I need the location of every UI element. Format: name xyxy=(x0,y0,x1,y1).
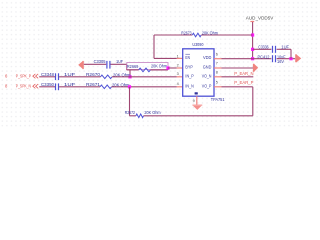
wire R2669 to IN_P vertical xyxy=(129,70,131,77)
wire feedback right vertical xyxy=(252,87,254,116)
svg-text:8: 8 xyxy=(216,71,218,75)
svg-text:PC412: PC412 xyxy=(258,54,270,59)
svg-text:2: 2 xyxy=(177,63,179,67)
svg-text:EN: EN xyxy=(185,55,190,60)
off-page connector left (BYP) xyxy=(78,61,84,69)
resistor R2673 xyxy=(181,31,218,37)
pin 5 stub xyxy=(214,86,222,88)
svg-text:C3336: C3336 xyxy=(258,45,269,50)
svg-text:R2671: R2671 xyxy=(86,82,101,87)
svg-text:R2670: R2670 xyxy=(86,72,101,77)
svg-text:7: 7 xyxy=(216,62,218,66)
port P_SPK_P xyxy=(5,74,38,79)
svg-text:5: 5 xyxy=(216,81,218,85)
svg-text:IN_P: IN_P xyxy=(185,73,194,78)
wire EN pull-up right segment xyxy=(201,34,252,36)
wire VDD row to PC412 xyxy=(253,58,272,60)
svg-text:R2672: R2672 xyxy=(125,110,136,115)
junction AUD_VDD5V / C3336 row xyxy=(251,48,254,51)
pin 1 stub xyxy=(177,57,183,59)
wire PC412 to junction xyxy=(277,58,296,60)
off-page connector right (AUD_VDD5V) xyxy=(295,54,301,62)
svg-text:TPA751: TPA751 xyxy=(211,97,225,102)
svg-text:9: 9 xyxy=(193,99,195,103)
power symbol bar AUD_VDD5V xyxy=(250,21,254,22)
wire BYP left segment xyxy=(84,63,106,65)
junction IN_N row / feedback vertical xyxy=(128,85,131,88)
svg-text:BYP: BYP xyxy=(185,65,193,70)
thermal pad mark xyxy=(195,92,198,94)
variant box around R2669 xyxy=(127,63,168,70)
off-page connector GND arrow xyxy=(253,64,258,72)
resistor R2670 xyxy=(86,72,131,78)
capacitor C3305 xyxy=(94,59,124,69)
svg-text:VO_N: VO_N xyxy=(202,73,212,78)
wire BYP box edge vertical xyxy=(167,68,169,70)
svg-text:6: 6 xyxy=(216,52,218,56)
wire VO_P net xyxy=(222,86,253,88)
svg-text:C3348: C3348 xyxy=(41,72,55,77)
wire C3336 row left xyxy=(253,48,272,50)
svg-text:IN_N: IN_N xyxy=(185,83,193,88)
wire IN_N cap to R2671 xyxy=(59,86,100,88)
op-amp U3090 (TPA751 audio amplifier) xyxy=(183,42,214,96)
svg-text:VDD: VDD xyxy=(203,55,211,60)
svg-text:20K Ohm: 20K Ohm xyxy=(151,64,167,69)
capacitor C3350 xyxy=(41,82,76,90)
resistor R2672 xyxy=(125,110,161,117)
svg-text:P_SPK_P: P_SPK_P xyxy=(16,74,31,79)
wire BYP to pin 2 xyxy=(168,67,177,69)
wire IN_P to pin 3 xyxy=(112,76,177,78)
junction bypass right xyxy=(289,57,292,60)
svg-text:VO_P: VO_P xyxy=(202,83,212,88)
wire BYP under box left xyxy=(127,69,139,71)
pin 2 stub xyxy=(177,67,183,69)
svg-text:3: 3 xyxy=(177,72,179,76)
svg-text:1UF: 1UF xyxy=(116,59,123,64)
svg-text:P_EAR_N: P_EAR_N xyxy=(234,71,253,76)
capacitor C3348 xyxy=(41,72,76,80)
junction IN_P row / bias vertical xyxy=(128,75,131,78)
wire AUD_VDD5V vertical xyxy=(252,22,254,59)
port P_SPK_N xyxy=(5,84,38,89)
svg-text:20K Ohm: 20K Ohm xyxy=(144,110,160,115)
pin 9 stub (bottom) xyxy=(196,96,198,105)
wire feedback bottom right xyxy=(144,115,253,117)
resistor R2669 xyxy=(127,64,167,72)
wire EN row to pin 1 xyxy=(154,57,177,59)
svg-text:1: 1 xyxy=(177,54,179,58)
wire BYP jog vertical xyxy=(126,64,128,70)
pin 4 stub xyxy=(177,86,183,88)
wire EN pull-up left segment xyxy=(154,34,192,36)
svg-text:U3090: U3090 xyxy=(192,42,203,47)
ground xyxy=(192,105,202,110)
junction BYP / pin2 wire xyxy=(166,66,169,69)
svg-text:R2673: R2673 xyxy=(181,31,192,36)
svg-text:C3350: C3350 xyxy=(41,82,55,87)
wire C3336 row right xyxy=(277,48,291,50)
svg-text:4: 4 xyxy=(177,82,179,86)
capacitor C3336 xyxy=(258,45,289,53)
svg-text:C3305: C3305 xyxy=(94,59,106,64)
wire VO_N net xyxy=(222,76,254,78)
wire IN_P cap to R2670 xyxy=(59,76,100,78)
pin 8 stub xyxy=(214,76,222,78)
wire BYP mid segment xyxy=(111,63,127,65)
junction AUD_VDD5V / VDD row xyxy=(251,57,254,60)
wire EN vertical xyxy=(153,35,155,58)
svg-text:GND: GND xyxy=(203,65,212,70)
wire IN_N feedback vertical xyxy=(129,87,131,116)
svg-text:P_SPK_N: P_SPK_N xyxy=(16,84,31,89)
wire feedback bottom left xyxy=(130,115,136,117)
junction AUD_VDD5V / R2673 xyxy=(251,33,254,36)
wire IN_N port to C3350 xyxy=(39,86,55,88)
pin 7 stub xyxy=(214,67,222,69)
wire bypass right vertical xyxy=(290,49,292,58)
resistor R2671 xyxy=(86,82,130,88)
wire IN_P port to C3348 xyxy=(39,76,55,78)
svg-text:16V: 16V xyxy=(277,59,284,64)
svg-text:P_EAR_P: P_EAR_P xyxy=(234,80,253,85)
pin 6 stub xyxy=(214,58,222,60)
wire GND row xyxy=(222,67,254,69)
svg-text:R2669: R2669 xyxy=(127,64,139,69)
wire BYP under box right xyxy=(150,69,168,71)
svg-text:AUD_VDD5V: AUD_VDD5V xyxy=(246,15,274,21)
capacitor PC412 (polarized) xyxy=(258,54,286,64)
pin 3 stub xyxy=(177,76,183,78)
wire VDD row to AUD junction xyxy=(222,58,253,60)
wire IN_N to pin 4 xyxy=(112,86,177,88)
